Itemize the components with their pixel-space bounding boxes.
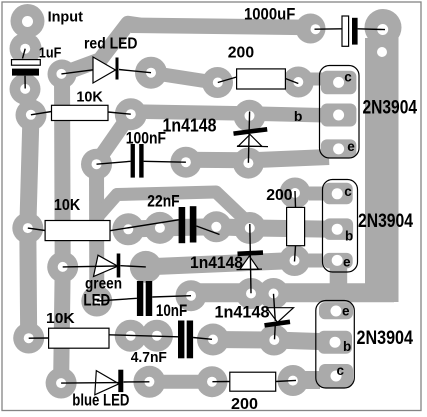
svg-text:red LED: red LED bbox=[84, 35, 138, 52]
pad R2 right pad bbox=[283, 67, 314, 98]
wire R7 lead left bbox=[29, 337, 49, 339]
hole D4 top bbox=[245, 111, 255, 121]
capacitor C3 22nF plates bbox=[179, 206, 197, 243]
hole D4 bottom bbox=[243, 158, 253, 168]
pad R1 right pad bbox=[115, 98, 147, 130]
wire R5 lead bottom bbox=[295, 246, 296, 262]
pad Q1 base pin bbox=[321, 104, 357, 127]
capacitor C6 1000uF plate left (outline) bbox=[342, 16, 349, 46]
wire C3 lead right bbox=[196, 226, 219, 235]
pad R4 right pad bbox=[112, 213, 144, 245]
wire stub R8 right pad to Q3 collector bbox=[304, 371, 320, 389]
pin label c Q1 bbox=[344, 69, 352, 84]
wire D6 lead (through) bbox=[274, 294, 276, 321]
value 4.7nF C5 bbox=[131, 349, 167, 366]
svg-text:e: e bbox=[343, 254, 351, 269]
hole Q1 e bbox=[333, 143, 344, 154]
pin label c Q2 bbox=[344, 184, 352, 199]
value 1n4148 D5 bbox=[190, 254, 243, 272]
pad R5 top pad bbox=[280, 178, 311, 209]
pad R4 left pad bbox=[12, 213, 43, 244]
pad C5 right pad bbox=[197, 324, 229, 356]
label blue LED bbox=[72, 391, 129, 409]
svg-text:1n4148: 1n4148 bbox=[215, 302, 270, 321]
label green (LED) bbox=[85, 276, 122, 293]
wire R2 lead left bbox=[218, 77, 237, 83]
svg-text:e: e bbox=[342, 304, 350, 319]
value 1000uF bbox=[244, 6, 295, 24]
hole D1 cathode bbox=[146, 68, 156, 78]
LED D2 green triangle bbox=[94, 255, 118, 276]
pin label c Q3 bbox=[337, 363, 345, 378]
value 10K R7 bbox=[46, 310, 75, 327]
svg-text:c: c bbox=[344, 69, 352, 84]
pad C3 left pad bbox=[144, 212, 176, 244]
wire stub Q2 emitter down to supply band bbox=[330, 264, 348, 292]
pad supply rail top pad bbox=[365, 9, 402, 46]
wire right supply rail column bbox=[365, 38, 399, 302]
pad D3 anode pad (blue LED) bbox=[46, 368, 77, 399]
value 1uF bbox=[39, 46, 62, 62]
hole R2 left bbox=[213, 78, 223, 88]
pad Q3 emitter pin bbox=[319, 302, 353, 319]
value 1n4148 D6 bbox=[215, 302, 270, 321]
svg-text:100nF: 100nF bbox=[126, 130, 166, 148]
value 200 R5 bbox=[266, 187, 292, 204]
wire stub R5 top pad to Q2 collector bbox=[309, 187, 324, 201]
value 200 R2 bbox=[228, 44, 254, 61]
hole input pad B bbox=[20, 44, 30, 54]
hole D5 top bbox=[245, 223, 255, 233]
hole C1 neg bbox=[20, 84, 30, 94]
hole R8 right bbox=[288, 376, 298, 386]
pad D4 cathode-net top pad bbox=[234, 100, 266, 132]
hole input pad A bbox=[22, 16, 33, 27]
pad Q1 collector pin bbox=[321, 71, 357, 95]
hole Q2 c bbox=[332, 188, 343, 199]
resistor R2 200 body bbox=[237, 69, 286, 89]
pad input pad A (top-left) bbox=[11, 4, 45, 38]
wire R8 lead right bbox=[276, 380, 296, 381]
hole R4 right bbox=[123, 224, 133, 234]
pad input pad B bbox=[10, 33, 42, 65]
wire C1 lead top bbox=[23, 49, 26, 59]
hole C3 left bbox=[155, 223, 165, 233]
resistor R5 200 body bbox=[287, 207, 305, 245]
value 22nF C3 bbox=[147, 193, 179, 211]
svg-text:b: b bbox=[345, 228, 353, 243]
hole C4 right bbox=[186, 291, 196, 301]
pad C2 left pad bbox=[81, 149, 112, 180]
pin label b Q1 bbox=[294, 108, 303, 124]
wire C6 lead right bbox=[358, 28, 385, 31]
hole R1 right bbox=[126, 109, 136, 119]
wire R7 lead right (through pads to C5) bbox=[109, 335, 178, 337]
hole Q1 c bbox=[333, 77, 344, 88]
svg-text:10K: 10K bbox=[46, 310, 75, 327]
pad Q2 collector pin bbox=[323, 183, 353, 205]
wire left column vertical trace (ground bus) bbox=[25, 89, 31, 338]
svg-text:200: 200 bbox=[231, 396, 258, 413]
wire D2 lead left (through) bbox=[63, 265, 117, 268]
wire D1 lead right bbox=[119, 70, 151, 73]
wire base row 1 trace (b of Q1) bbox=[131, 112, 335, 116]
wire bottom supply band bbox=[194, 283, 394, 302]
wire C4 lead right bbox=[152, 296, 191, 297]
capacitor C5 4.7nF plates bbox=[178, 321, 193, 359]
hole Q2 b bbox=[332, 224, 343, 235]
wire emitter row 1 trace (e of Q1) bbox=[186, 157, 329, 160]
pad D1 anode pad (red LED) bbox=[48, 60, 77, 89]
value 200 R8 bbox=[231, 396, 258, 413]
hole Q1 b bbox=[333, 110, 344, 121]
wire R4 lead left bbox=[28, 228, 45, 230]
hole R8 left bbox=[207, 377, 217, 387]
hole D1 anode bbox=[56, 69, 66, 79]
svg-text:Input: Input bbox=[48, 8, 83, 25]
wire D4 lead (through) bbox=[248, 112, 249, 163]
diode D5 1n4148 cathode bar bbox=[238, 253, 264, 254]
wire C2 lead left bbox=[97, 161, 131, 164]
hole 1000uF left bbox=[311, 24, 321, 34]
resistor R7 10K body bbox=[49, 328, 109, 348]
hole D3 anode bbox=[56, 378, 66, 388]
wire D3 lead right bbox=[124, 381, 150, 383]
pad Q3 base pin bbox=[318, 331, 352, 354]
hole D5 bottom bbox=[246, 289, 256, 299]
pad R5 bottom pad bbox=[279, 245, 310, 276]
svg-text:10K: 10K bbox=[54, 197, 81, 214]
pad C5 left pads (merged pair) 2 bbox=[141, 320, 173, 352]
diode D5 1n4148 base tick bbox=[237, 268, 263, 271]
pad Q1 emitter pin bbox=[321, 139, 357, 158]
pad D5 bottom pad bbox=[236, 278, 267, 309]
hole rail second bbox=[377, 47, 387, 57]
wire R1 lead left bbox=[31, 112, 52, 115]
pad C3 right pad bbox=[201, 211, 232, 242]
svg-text:c: c bbox=[337, 363, 345, 378]
svg-text:green: green bbox=[85, 276, 122, 293]
diode D4 1n4148 triangle bbox=[238, 135, 262, 147]
pin label e Q3 bbox=[342, 304, 350, 319]
pad 1000uF left pad bbox=[296, 14, 326, 44]
pad C1 negative pad bbox=[10, 74, 41, 105]
diode D6 1n4148 cathode bar bbox=[265, 322, 291, 326]
LED D2 green cathode bar bbox=[117, 254, 121, 278]
pad supply rail second pad bbox=[367, 37, 398, 68]
hole R7 left bbox=[24, 333, 34, 343]
diode D6 1n4148 triangle bbox=[267, 308, 294, 323]
wire stub R2 right pad to Q1 collector bbox=[308, 73, 324, 86]
hole C4 left bbox=[92, 296, 102, 306]
pad D6 bottom pad bbox=[259, 325, 290, 356]
wire emitter row 2 trace (e of Q2) bbox=[146, 261, 295, 267]
wire top horizontal rail to 1000uF bbox=[131, 25, 311, 27]
transistor Q3 outline 2N3904 bbox=[316, 301, 355, 389]
wire base row 3 trace (b of Q3) bbox=[213, 340, 334, 343]
LED D1 red cathode bar bbox=[116, 58, 119, 80]
transistor Q2 outline 2N3904 bbox=[323, 180, 358, 273]
capacitor C1 1uF plate top (outline) bbox=[12, 60, 41, 66]
svg-text:e: e bbox=[347, 139, 355, 154]
svg-text:200: 200 bbox=[266, 187, 292, 204]
hole D2 anode bbox=[58, 262, 68, 272]
svg-text:LED: LED bbox=[83, 291, 110, 309]
pad D6 top pad bbox=[258, 278, 289, 309]
label red LED bbox=[84, 35, 138, 52]
wire second vertical column trace bbox=[61, 74, 63, 383]
hole R4 left bbox=[23, 223, 33, 233]
wire D6 lead bottom bbox=[274, 322, 277, 339]
pad C2 right pad bbox=[170, 147, 201, 178]
diode D4 1n4148 cathode bar bbox=[234, 129, 268, 133]
hole C5 left a bbox=[126, 331, 136, 341]
wire R2 lead right bbox=[285, 79, 298, 84]
pin label b Q3 bbox=[343, 339, 351, 354]
value 1n4148 D4 bbox=[163, 114, 217, 135]
wire C4 lead left bbox=[97, 298, 137, 301]
label 2N3904 Q1 bbox=[363, 97, 418, 118]
svg-text:2N3904: 2N3904 bbox=[358, 211, 413, 232]
label LED (green) bbox=[83, 291, 110, 309]
svg-text:22nF: 22nF bbox=[147, 193, 179, 211]
hole D6 top bbox=[269, 289, 279, 299]
wire D1 lead left bbox=[61, 70, 93, 74]
pad R7 left pad bbox=[13, 323, 44, 354]
pad R8 right pad bbox=[278, 365, 309, 396]
hole C5 right bbox=[208, 335, 218, 345]
pad R2 left pad bbox=[202, 67, 233, 98]
label Input bbox=[48, 8, 83, 25]
wire C1 lead bottom bbox=[24, 76, 26, 89]
svg-text:4.7nF: 4.7nF bbox=[131, 349, 167, 366]
value 10nF C4 bbox=[156, 302, 187, 320]
wire stub R5 bottom pad to Q2 emitter bbox=[308, 254, 323, 268]
svg-text:blue LED: blue LED bbox=[72, 391, 129, 409]
pad Q2 emitter pin bbox=[323, 253, 353, 269]
hole R2 right bbox=[293, 77, 303, 87]
wire D3 lead left (through) bbox=[61, 382, 118, 385]
value 10K R1 bbox=[76, 90, 103, 106]
capacitor C1 1uF plate bottom (solid) bbox=[12, 69, 39, 76]
svg-text:2N3904: 2N3904 bbox=[363, 97, 418, 118]
pad R8 left pad bbox=[197, 366, 228, 397]
pad C4 right pad bbox=[176, 280, 207, 311]
pad R1 left pad bbox=[16, 100, 47, 131]
hole Q3 b bbox=[330, 337, 341, 348]
wire R1 lead right bbox=[108, 112, 131, 114]
svg-text:1000uF: 1000uF bbox=[244, 6, 295, 24]
LED D3 blue cathode bar bbox=[118, 370, 123, 392]
capacitor C2 100nF plates bbox=[131, 144, 144, 178]
wire R5 lead top bbox=[294, 191, 297, 207]
pad D1 cathode pad bbox=[135, 57, 167, 89]
wire base row 2 trace (b of Q2) bbox=[128, 227, 334, 230]
resistor R8 200 body bbox=[230, 372, 276, 391]
value 10K R4 bbox=[54, 197, 81, 214]
svg-text:c: c bbox=[344, 184, 352, 199]
hole Q3 c bbox=[331, 371, 342, 382]
hole R5 bottom bbox=[290, 256, 300, 266]
pad D4 bottom pad bbox=[233, 148, 264, 179]
svg-text:1n4148: 1n4148 bbox=[163, 114, 217, 135]
wire R4 lead right (through pads to C3) bbox=[110, 220, 179, 231]
pad D3 cathode pad bbox=[133, 366, 165, 398]
wire red LED dumbbell trace bbox=[151, 73, 218, 83]
pad D5 top pad bbox=[234, 212, 266, 244]
wire diagonal R1-right down to C2 left pad bbox=[98, 118, 128, 161]
hole C2 right bbox=[181, 157, 191, 167]
wire blue LED dumbbell trace bbox=[149, 375, 212, 389]
pad C4 left pad bbox=[81, 286, 112, 317]
wire D2 lead right bbox=[121, 266, 146, 267]
diode D5 1n4148 triangle bbox=[240, 256, 259, 269]
label 2N3904 Q2 bbox=[358, 211, 413, 232]
pin label e Q1 bbox=[347, 139, 355, 154]
transistor Q1 outline 2N3904 bbox=[320, 66, 360, 159]
hole D3 cathode bbox=[144, 377, 154, 387]
wire D5 lead (through) bbox=[250, 224, 251, 293]
wire R8 lead left bbox=[212, 381, 229, 383]
svg-text:10nF: 10nF bbox=[156, 302, 187, 320]
svg-text:b: b bbox=[294, 108, 303, 124]
svg-text:1n4148: 1n4148 bbox=[190, 254, 243, 272]
hole C5 left b bbox=[152, 331, 162, 341]
svg-text:10K: 10K bbox=[76, 90, 103, 106]
LED D1 red triangle bbox=[93, 57, 116, 83]
svg-text:b: b bbox=[343, 339, 351, 354]
pad D2 anode pad (green LED) bbox=[47, 252, 78, 283]
hole D6 bottom bbox=[269, 335, 279, 345]
hole Q2 e bbox=[332, 255, 343, 266]
label 2N3904 Q3 bbox=[357, 328, 414, 349]
wire C5 lead right bbox=[193, 338, 212, 340]
capacitor C4 10nF plates bbox=[137, 281, 152, 316]
svg-text:2N3904: 2N3904 bbox=[357, 328, 414, 349]
diode D4 1n4148 base tick bbox=[237, 145, 268, 148]
pad Q3 collector pin bbox=[319, 364, 353, 388]
LED D3 blue triangle bbox=[95, 371, 119, 395]
pad Q2 base pin bbox=[324, 218, 354, 240]
pin label b Q2 bbox=[345, 228, 353, 243]
hole C2 left bbox=[92, 159, 102, 169]
resistor R1 10K body bbox=[52, 105, 109, 120]
svg-text:200: 200 bbox=[228, 44, 254, 61]
pin label e Q2 bbox=[343, 254, 351, 269]
pad D2 cathode pad bbox=[130, 251, 162, 283]
wire C6 lead left bbox=[315, 28, 343, 30]
wire vertical trace C2-left to C4-left bbox=[89, 164, 104, 301]
wire branch over 22nF label to D5 top pad bbox=[99, 192, 249, 223]
hole C3 right bbox=[211, 222, 221, 232]
svg-text:1uF: 1uF bbox=[39, 46, 62, 62]
resistor R4 10K body bbox=[45, 221, 110, 241]
hole rail top bbox=[377, 24, 388, 35]
hole R5 top bbox=[290, 188, 300, 198]
pad C5 left pads (merged pair) 1 bbox=[115, 320, 147, 352]
wire diagonal from red LED pad up to top rail bbox=[62, 24, 140, 75]
capacitor C6 1000uF plate right (solid) bbox=[352, 18, 358, 45]
wire C2 lead right bbox=[144, 160, 186, 163]
hole R1 left bbox=[26, 110, 36, 120]
hole Q3 e bbox=[331, 306, 342, 317]
value 100nF C2 bbox=[126, 130, 166, 148]
